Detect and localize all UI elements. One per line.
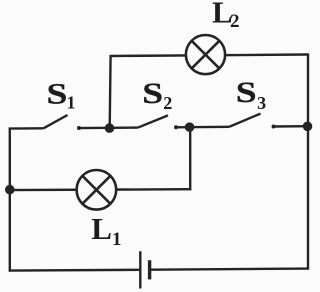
svg-text:L: L — [91, 211, 112, 246]
wire: top branch horizontal — [111, 55, 308, 57]
switch S1 blade — [44, 115, 68, 128]
switch S2 contact dot — [174, 125, 178, 129]
svg-text:1: 1 — [67, 92, 76, 112]
svg-text:2: 2 — [163, 93, 172, 113]
wire: switch row, left segment to S1 pivot — [9, 127, 44, 130]
svg-text:1: 1 — [112, 229, 122, 250]
label S1 — [47, 78, 76, 112]
label S2 — [142, 77, 172, 113]
label S3 — [236, 77, 266, 113]
wire: right vertical rail — [307, 53, 309, 269]
wire: left vertical main — [9, 128, 11, 272]
node J4: junction left rail and L1 branch — [5, 185, 15, 195]
label L2 — [212, 0, 240, 32]
battery: short plate (negative) — [148, 260, 151, 279]
wire: vertical from node J2 down to L1 row — [189, 127, 191, 190]
svg-text:2: 2 — [230, 11, 240, 32]
label L1 — [91, 211, 121, 250]
node J3: junction right rail and switch row — [303, 122, 313, 132]
switch S1 contact dot — [77, 126, 81, 130]
switch S2 blade — [138, 115, 168, 127]
svg-text:S: S — [142, 77, 163, 110]
node J2: junction of S2/S3 and L1 branch — [185, 122, 195, 132]
svg-text:3: 3 — [257, 93, 266, 113]
lamp L2 — [186, 35, 225, 74]
wire: S2 contact to S3 pivot — [175, 126, 230, 129]
wire: bottom rail right of battery — [151, 269, 308, 270]
switch S3 blade — [229, 114, 261, 127]
svg-text:S: S — [236, 77, 257, 110]
switch S3 contact dot — [272, 124, 276, 128]
wire: L1 row horizontal — [9, 188, 192, 191]
wire: S3 contact to right rail — [272, 125, 308, 128]
wire: bottom rail left of battery — [9, 269, 141, 272]
wire: vertical from top branch down to node J1 — [108, 55, 111, 128]
wire: S1 contact to S2 pivot — [78, 126, 139, 129]
lamp L1 — [77, 170, 117, 210]
node J1: junction of S1/S2 and L2 branch — [105, 123, 115, 133]
battery: long plate (positive) — [139, 251, 141, 288]
svg-text:S: S — [47, 78, 68, 111]
